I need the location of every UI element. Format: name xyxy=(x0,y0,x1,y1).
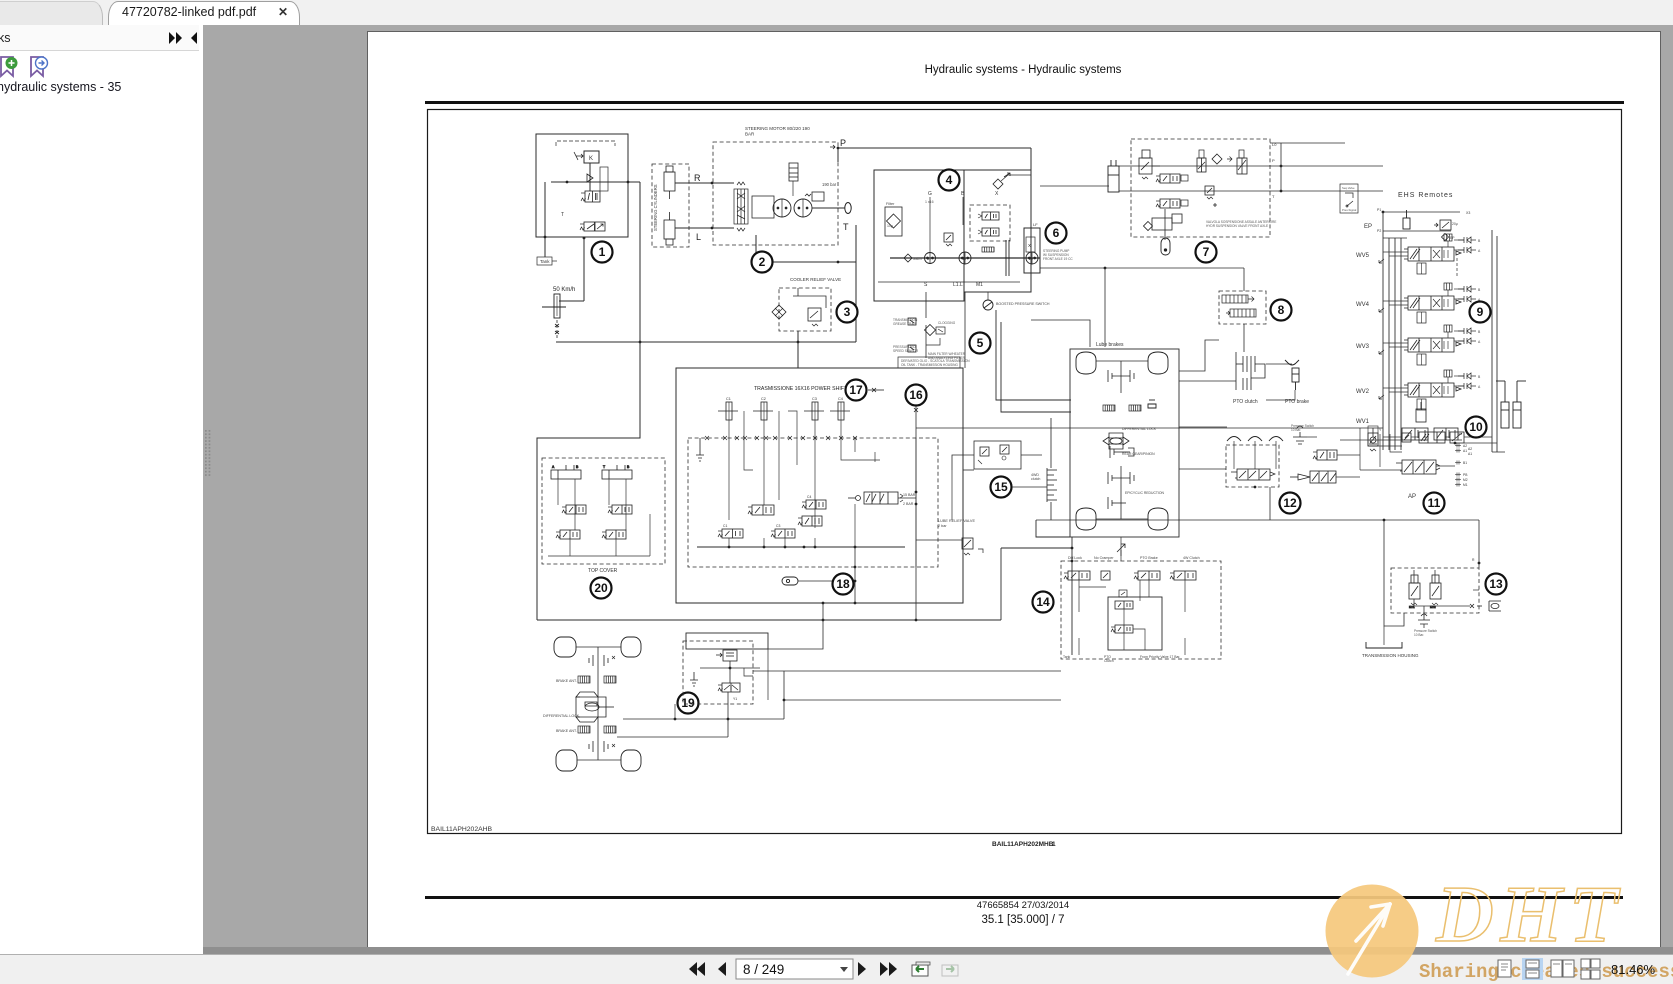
bus wire 4 xyxy=(1400,238,1402,450)
steering cylinders box xyxy=(652,164,689,247)
lower block xyxy=(1152,214,1182,230)
wire xyxy=(768,620,823,649)
wire xyxy=(556,341,856,343)
suspension solenoid valve 2 xyxy=(1156,199,1180,208)
shift valve C4 xyxy=(802,500,826,509)
wire xyxy=(962,197,964,225)
WV3 coupler plate xyxy=(1444,325,1476,344)
wire xyxy=(1243,268,1245,291)
inching dashed box xyxy=(1226,445,1279,487)
numbered balloon 13 xyxy=(1486,574,1507,595)
diff lock manifold xyxy=(686,633,768,649)
front differential xyxy=(576,692,614,722)
wire xyxy=(898,497,916,499)
wire xyxy=(1036,520,1070,537)
wire xyxy=(753,670,784,672)
wire xyxy=(987,292,989,300)
wire xyxy=(544,238,546,257)
modulating valve xyxy=(848,492,903,504)
top cover dashed box xyxy=(542,458,665,564)
junction xyxy=(566,181,569,184)
pressure switch 13 xyxy=(1418,614,1430,624)
junction xyxy=(1071,560,1074,563)
regulator valve 1 xyxy=(982,212,999,220)
WV5 coupler plate xyxy=(1444,234,1476,253)
WV1 valve group xyxy=(1402,402,1464,443)
junction xyxy=(1478,562,1481,565)
shuttle valve A xyxy=(1402,428,1428,440)
charge pump xyxy=(925,253,936,264)
hand brake caliper xyxy=(1148,400,1156,408)
front axle drive xyxy=(597,647,599,760)
numbered balloon 4 xyxy=(939,170,960,191)
wire xyxy=(838,147,1031,149)
wire xyxy=(1036,519,1479,521)
wire xyxy=(964,292,966,368)
PTO clutch xyxy=(1236,352,1266,390)
junction xyxy=(1280,190,1283,193)
numbered balloon 18 xyxy=(833,574,854,595)
port marks xyxy=(705,436,857,440)
suspension relief xyxy=(1139,150,1152,179)
numbered balloon 9 xyxy=(1470,302,1491,323)
wire xyxy=(797,288,799,296)
pilot valve A xyxy=(1197,158,1206,172)
check valve xyxy=(1368,426,1378,446)
no cramper orifice xyxy=(1101,571,1110,580)
junction xyxy=(814,546,817,549)
cover valve 4 xyxy=(602,530,626,539)
junction xyxy=(1071,547,1074,550)
WV5 feed wires xyxy=(1383,240,1458,256)
trailer solenoid 2 xyxy=(1430,575,1441,609)
pedal arcs xyxy=(1227,437,1283,442)
cover valve 1 xyxy=(562,505,586,514)
regulator dashed box xyxy=(970,205,1010,241)
relief W xyxy=(805,192,824,201)
wire xyxy=(1243,324,1245,352)
wire xyxy=(822,603,824,620)
lube relief valve xyxy=(962,538,983,555)
wire xyxy=(1473,589,1479,591)
steering wheel xyxy=(845,203,851,214)
PTO brake xyxy=(1285,360,1299,390)
numbered balloon 14 xyxy=(1033,592,1054,613)
next view (disabled) xyxy=(942,965,958,976)
transmission enclosure xyxy=(676,368,963,603)
steering metering pump xyxy=(773,199,791,217)
junction xyxy=(639,341,642,344)
front wheel 3 xyxy=(556,750,577,771)
previous view xyxy=(912,962,930,976)
diff solenoid xyxy=(716,650,737,661)
wire xyxy=(1266,363,1292,365)
rear wheel 2 xyxy=(1148,352,1168,374)
coupler xyxy=(1470,601,1501,611)
shift valve C1 xyxy=(718,529,743,538)
brake pack R xyxy=(1129,405,1141,411)
EP test point xyxy=(1442,234,1449,241)
WV4 valve block xyxy=(1404,296,1461,323)
junction xyxy=(783,699,786,702)
right bus double line xyxy=(1492,230,1497,452)
suspension cylinder xyxy=(1108,160,1119,192)
wire xyxy=(915,404,917,438)
wire xyxy=(925,292,927,318)
steering motor caption xyxy=(745,126,810,137)
linkage box xyxy=(600,167,608,191)
WV2 valve block xyxy=(1404,383,1461,410)
steering shaft xyxy=(812,207,845,209)
junction xyxy=(915,503,918,506)
diff valve dashed box xyxy=(683,641,753,704)
junction xyxy=(1280,165,1283,168)
svg-text:81.46%: 81.46% xyxy=(1611,962,1656,977)
wire xyxy=(1120,466,1122,519)
junction xyxy=(837,261,840,264)
shuttle valve B xyxy=(1434,428,1458,440)
wire xyxy=(559,300,584,302)
wire xyxy=(1164,209,1166,240)
brake pack L xyxy=(1103,405,1115,411)
inching valve xyxy=(1231,469,1275,480)
wire xyxy=(1456,258,1458,276)
wire xyxy=(1119,190,1270,192)
junction xyxy=(1383,519,1386,522)
wire xyxy=(1031,320,1090,347)
numbered balloon 15 xyxy=(991,477,1012,498)
wire xyxy=(1001,322,1071,412)
cover valve 3 xyxy=(556,530,580,539)
prev page button xyxy=(718,962,726,976)
WV3 valve block xyxy=(1404,338,1461,365)
junction xyxy=(1382,211,1385,214)
wire xyxy=(793,296,826,308)
wire xyxy=(963,469,974,471)
bus wire 1 xyxy=(1382,212,1384,450)
suspension solenoid valve 1 xyxy=(1156,174,1180,183)
numbered balloon 17 xyxy=(846,380,867,401)
wire xyxy=(878,281,1020,283)
steering motor box xyxy=(713,142,838,245)
wires to cylinders xyxy=(1464,437,1505,452)
front brake L1 xyxy=(578,676,590,683)
WV4 feed wires xyxy=(1383,289,1458,305)
front axle shaft xyxy=(576,646,621,648)
wire xyxy=(1120,537,1122,561)
tank drop xyxy=(696,438,704,461)
numbered balloon 8 xyxy=(1271,300,1292,321)
internal wires xyxy=(729,438,880,528)
two page continuous icon xyxy=(1581,959,1600,979)
wire xyxy=(951,470,953,520)
wire xyxy=(1383,626,1385,645)
wire xyxy=(855,225,857,342)
diff lock valve xyxy=(718,683,740,692)
pto brake solenoid xyxy=(1134,571,1160,580)
junction xyxy=(797,341,800,344)
boosted pressure switch xyxy=(983,300,993,310)
junction xyxy=(915,491,918,494)
wire xyxy=(916,539,962,541)
wire xyxy=(915,603,917,620)
wire xyxy=(583,238,585,301)
rear axle enclosure xyxy=(1070,349,1179,537)
steering pump 2 xyxy=(794,199,812,217)
wire xyxy=(1040,267,1244,269)
junction xyxy=(1454,442,1457,445)
check valve xyxy=(587,174,593,182)
pressure reducer xyxy=(1290,471,1336,483)
numbered balloon 11 xyxy=(1424,493,1445,514)
wire xyxy=(926,338,940,345)
wire xyxy=(1478,520,1480,563)
footer rule xyxy=(425,896,1623,899)
EP valve xyxy=(1434,220,1451,230)
front wheel 4 xyxy=(621,750,641,771)
wire xyxy=(1270,165,1383,167)
page number box xyxy=(736,959,853,979)
wire xyxy=(628,181,640,183)
wire xyxy=(792,181,794,196)
wire xyxy=(916,427,1383,429)
priority valve 1 xyxy=(1313,450,1337,460)
junction xyxy=(822,602,825,605)
wire xyxy=(556,320,558,338)
title rule xyxy=(425,101,1624,104)
junction xyxy=(822,619,825,622)
check diamond xyxy=(1212,154,1222,164)
junction xyxy=(784,546,787,549)
wire xyxy=(1120,361,1122,393)
trailer valve dashed box xyxy=(1391,568,1479,613)
svg-text:DHT: DHT xyxy=(1435,871,1624,959)
proportional symbol xyxy=(574,152,583,160)
numbered balloon 2 xyxy=(752,252,773,273)
column segments xyxy=(789,163,798,181)
main pump xyxy=(959,252,971,264)
PTO spool 2 xyxy=(1230,309,1256,317)
wire xyxy=(556,141,615,146)
pump inner xyxy=(1026,237,1035,252)
PTO valve dashed box xyxy=(1219,291,1266,324)
wire xyxy=(925,325,927,358)
numbered balloon 10 xyxy=(1466,417,1487,438)
wire xyxy=(537,619,1001,621)
wire xyxy=(1000,548,1002,620)
temp gauge tap xyxy=(908,318,916,325)
svg-text:8 / 249: 8 / 249 xyxy=(743,962,784,977)
wire xyxy=(854,567,856,603)
cover cylinder T/B xyxy=(602,465,632,479)
front suspension dashed box xyxy=(1131,139,1270,237)
junction xyxy=(763,546,766,549)
diff lock solenoid xyxy=(1064,571,1090,580)
rear wheel 4 xyxy=(1148,508,1168,530)
junction xyxy=(854,566,857,569)
wire L xyxy=(675,227,734,229)
differential lock xyxy=(1103,433,1129,449)
front brake L2 xyxy=(578,726,590,733)
wire xyxy=(537,182,640,620)
wire xyxy=(1104,268,1106,347)
coupling bars xyxy=(1006,240,1009,276)
junction xyxy=(1254,486,1257,489)
wire xyxy=(1383,211,1460,213)
numbered balloon 5 xyxy=(970,333,991,354)
numbered balloon 16 xyxy=(906,385,927,406)
WV3 feed wires xyxy=(1383,331,1458,347)
bus wire 2 xyxy=(1388,238,1390,450)
pump group right enclosure xyxy=(964,170,1031,292)
solenoid valve K xyxy=(584,151,599,163)
bus wire 3 xyxy=(1394,238,1396,450)
steering supply pump box xyxy=(1024,228,1040,273)
wire xyxy=(727,692,729,737)
junction xyxy=(729,667,732,670)
regulator valve 2 xyxy=(982,228,999,236)
filter element xyxy=(887,214,901,228)
housing bracket xyxy=(1366,642,1402,648)
wire xyxy=(1270,142,1345,144)
pump group enclosure xyxy=(874,170,964,301)
wire xyxy=(784,699,1061,701)
pressure relief bottom left xyxy=(1368,433,1378,451)
cooler symbol xyxy=(772,305,786,319)
suction strainer xyxy=(904,254,912,262)
aux pump xyxy=(1026,252,1038,264)
wire xyxy=(589,163,591,191)
numbered balloon 19 xyxy=(678,693,699,714)
wire xyxy=(1383,230,1451,232)
wire xyxy=(1266,390,1295,400)
junction xyxy=(1104,267,1107,270)
wire xyxy=(544,182,546,238)
gear pair bottom xyxy=(1108,472,1134,484)
WV2 feed wires xyxy=(1383,376,1458,392)
junction xyxy=(544,236,547,239)
front brake R2 xyxy=(604,726,616,733)
WV1 bus connections xyxy=(1383,436,1450,438)
note box xyxy=(898,357,960,368)
relief cartridge xyxy=(808,308,821,326)
numbered balloon 7 xyxy=(1196,242,1217,263)
junction xyxy=(674,718,677,721)
wire xyxy=(552,260,557,262)
gear top xyxy=(589,655,615,666)
wire xyxy=(536,236,628,238)
junction xyxy=(915,619,918,622)
wire xyxy=(1030,148,1032,292)
junction xyxy=(627,181,630,184)
wire xyxy=(798,580,855,582)
wire xyxy=(1152,165,1160,167)
front wheel 1 xyxy=(554,637,576,657)
shift valve 2 xyxy=(798,516,822,526)
wire xyxy=(756,235,790,262)
WV5 valve block xyxy=(1404,247,1461,274)
numbered balloon 6 xyxy=(1046,223,1067,244)
numbered balloon 1 xyxy=(592,242,613,263)
gerotor box xyxy=(752,196,774,218)
front axle shaft 2 xyxy=(577,759,621,761)
wire xyxy=(1179,468,1226,470)
speed sensor xyxy=(542,294,566,318)
filter xyxy=(885,207,902,236)
junction xyxy=(1383,519,1385,521)
junction xyxy=(854,580,857,583)
junction xyxy=(803,546,806,549)
pump shaft xyxy=(890,257,1040,259)
continuous icon (selected) xyxy=(1522,958,1543,980)
4w clutch solenoid xyxy=(1170,571,1196,580)
brake valve xyxy=(580,222,605,231)
region 1 enclosure xyxy=(536,134,628,237)
rear wheel 1 xyxy=(1076,352,1096,374)
inner valve 2 xyxy=(1111,625,1133,633)
wire xyxy=(1269,487,1271,520)
wire xyxy=(783,671,785,719)
WV2 coupler plate xyxy=(1444,370,1476,389)
transmission valve dashed box xyxy=(688,438,938,567)
wire xyxy=(1071,537,1073,655)
inner valve 1 xyxy=(1115,601,1133,609)
wire xyxy=(952,455,974,470)
wire xyxy=(623,718,784,720)
shift valve 1 xyxy=(748,505,774,515)
junction xyxy=(854,602,857,605)
pressure switch 10bar xyxy=(1293,426,1307,444)
junction xyxy=(728,546,731,549)
numbered balloon 12 xyxy=(1280,493,1301,514)
cover valve 2 xyxy=(608,505,632,514)
wire xyxy=(700,667,760,669)
wire xyxy=(551,181,628,183)
remote cylinders xyxy=(1496,381,1526,428)
cooler relief box xyxy=(779,288,831,331)
wire xyxy=(1001,547,1072,549)
wire xyxy=(767,649,769,700)
wire xyxy=(915,438,917,567)
wire xyxy=(996,310,1071,400)
suspension accumulator xyxy=(1161,238,1170,255)
wire xyxy=(729,661,731,683)
wire xyxy=(697,546,905,548)
steering control spool xyxy=(734,189,748,224)
junction xyxy=(711,227,714,230)
wire xyxy=(1040,185,1109,187)
tank box xyxy=(537,257,552,265)
wire xyxy=(1384,520,1404,626)
WV4 coupler plate xyxy=(1444,283,1476,302)
wire xyxy=(929,197,931,252)
cover cylinder A/B xyxy=(551,465,581,479)
last page button xyxy=(880,962,897,976)
spring top xyxy=(737,182,745,185)
steering cylinder lower xyxy=(664,212,675,245)
numbered balloon 20 xyxy=(591,578,612,599)
wire xyxy=(1119,165,1270,167)
wire R xyxy=(675,182,734,184)
solenoid top xyxy=(1403,210,1410,229)
junction xyxy=(583,237,586,240)
junction xyxy=(711,182,714,185)
wire xyxy=(790,261,856,263)
single page icon xyxy=(1498,960,1511,977)
suction filter xyxy=(925,325,936,336)
front wheel 2 xyxy=(621,637,641,657)
pilot valve B xyxy=(1237,158,1247,174)
